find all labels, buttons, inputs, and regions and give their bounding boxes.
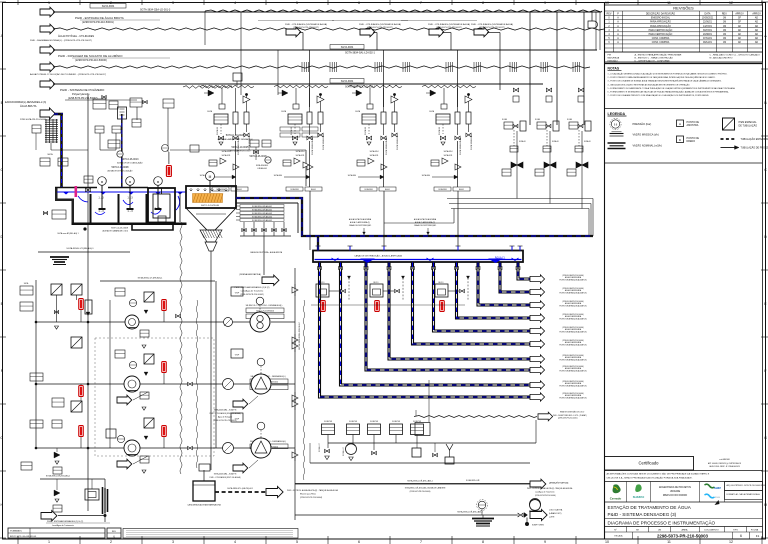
- row1 pump: [125, 315, 139, 329]
- svg-text:JM: JM: [723, 38, 726, 40]
- svg-text:5: 5: [296, 1, 298, 5]
- svg-text:SGTA: SGTA: [355, 110, 361, 113]
- svg-text:P&ID - ENTRADA DE ÁGUA BRUTA: P&ID - ENTRADA DE ÁGUA BRUTA: [75, 16, 124, 20]
- row1 motor: [256, 297, 264, 305]
- svg-text:12: 12: [729, 540, 733, 544]
- svg-text:P&ID - SISTEMA DE POLÍMERO: P&ID - SISTEMA DE POLÍMERO: [60, 88, 105, 92]
- svg-text:Água de Selagem: Água de Selagem: [218, 416, 233, 419]
- pipe utilidades zigzag 1: [40, 24, 55, 34]
- svg-text:SGTA-0811: SGTA-0811: [444, 154, 453, 157]
- collector right verticals: [592, 199, 594, 237]
- svg-text:meu: meu: [715, 495, 721, 499]
- svg-text:C: C: [0, 168, 3, 172]
- svg-text:5070-0-26-0008: 5070-0-26-0008: [111, 166, 129, 169]
- svg-text:SGTA-3834: SGTA-3834: [341, 46, 354, 49]
- tag box polimero: [330, 79, 364, 84]
- wavy boundary left of clarifier: [180, 222, 182, 474]
- svg-text:CONF. COMPRA: CONF. COMPRA: [652, 37, 670, 40]
- svg-text:14/07/21: 14/07/21: [703, 26, 713, 28]
- svg-text:B - EMITIDO C - PARA CONS: B - EMITIDO C - PARA CONSTRUÇÃO: [635, 57, 674, 60]
- valve component on drop 2: [118, 107, 127, 119]
- svg-text:FORMATO A1 - NÃO ALTERAR ESCAL: FORMATO A1 - NÃO ALTERAR ESCALA: [727, 493, 761, 496]
- stair pipe valves under channel: [318, 267, 320, 270]
- svg-text:ÁGUA CLARIFICADA (2): ÁGUA CLARIFICADA (2): [415, 221, 435, 224]
- svg-text:SGTA-3834-LUÉ-AB: SGTA-3834-LUÉ-AB: [311, 137, 314, 155]
- svg-text:JM: JM: [723, 30, 726, 32]
- svg-text:SGTA-LUT: SGTA-LUT: [342, 446, 345, 456]
- svg-text:7: 7: [420, 1, 422, 5]
- revision table footer: [605, 51, 763, 53]
- svg-text:DATA: DATA: [704, 13, 710, 16]
- svg-text:UN: UN: [658, 530, 662, 532]
- clarifier M mixer: [206, 172, 215, 181]
- svg-text:suze: suze: [714, 486, 721, 490]
- riser from connector 2: [373, 32, 377, 34]
- svg-text:UNIDADE: UNIDADE: [670, 490, 681, 493]
- bottom right items: [412, 448, 421, 457]
- svg-text:PARA CERTIFICAÇÃO: PARA CERTIFICAÇÃO: [649, 29, 673, 32]
- svg-text:JM: JM: [723, 22, 726, 24]
- svg-text:SGTA-08: SGTA-08: [364, 127, 367, 135]
- svg-text:SGTO-0-26-0008: SGTO-0-26-0008: [111, 228, 129, 230]
- row3 red valves: [80, 437, 82, 448]
- bottom instrument box 6 double: [415, 423, 430, 436]
- svg-text:NATUREZA: NATUREZA: [608, 57, 620, 60]
- box with inner square: [85, 489, 99, 500]
- manifold collector: [240, 235, 291, 237]
- row2 red valve: [163, 373, 165, 384]
- svg-text:SGTA 748: SGTA 748: [413, 420, 421, 423]
- vertical flow bars: [102, 487, 104, 514]
- clarified water pipe 1: [320, 263, 531, 398]
- row3 pump: [124, 440, 140, 456]
- left boxes near tank: [40, 158, 50, 166]
- svg-text:ART. 040445, REV5429 (r) CERTI: ART. 040445, REV5429 (r) CERTIFICADOS: [708, 462, 742, 465]
- svg-text:Nº: Nº: [614, 529, 617, 532]
- svg-text:PARA APROVAÇÃO: PARA APROVAÇÃO: [650, 25, 671, 28]
- svg-text:(2298-5073-UTIL-PR-50017): (2298-5073-UTIL-PR-50017): [479, 27, 505, 29]
- bottom row bus: [328, 442, 536, 444]
- svg-text:7 - PONTO DE DOSAGEM PREVISTO: 7 - PONTO DE DOSAGEM PREVISTO COM SINALI…: [608, 94, 710, 97]
- svg-text:BUCO: BUCO: [439, 282, 445, 284]
- lamella pack orange: [193, 194, 223, 203]
- svg-text:C - REALIZADO COMO CL - CIRCU: C - REALIZADO COMO CL - CIRCUITO LANÇADO: [710, 54, 761, 57]
- svg-text:EMISSÃO INICIAL: EMISSÃO INICIAL: [651, 17, 671, 20]
- svg-text:3: 3: [172, 540, 174, 544]
- left small bowtie: [43, 211, 45, 214]
- svg-text:FILTRO DE AREIA (xGUAxZbBTxV): FILTRO DE AREIA (xGUAxZbBTxV): [559, 385, 587, 388]
- svg-text:JM: JM: [723, 18, 726, 20]
- train hatch top 222: [200, 85, 254, 88]
- channel feed drop arrows: [317, 246, 319, 251]
- legend nominal flow symbol: [608, 142, 626, 144]
- riser from connector 3: [442, 32, 451, 34]
- lodo arrow: [530, 509, 547, 520]
- agua bruta drop 2: [121, 114, 123, 187]
- svg-text:6: 6: [358, 1, 360, 5]
- svg-text:Cerrado: Cerrado: [610, 497, 622, 501]
- svg-text:SGTA-3834-LUÉ: SGTA-3834-LUÉ: [396, 135, 399, 150]
- svg-text:(AGITADOR CÂMARA DE LODO): (AGITADOR CÂMARA DE LODO): [103, 230, 129, 233]
- logo strip: [605, 501, 763, 503]
- basin inner box: [158, 216, 166, 222]
- row2 bus: [35, 383, 251, 385]
- network main verticals: [35, 280, 37, 448]
- risers right pair: [595, 12, 597, 50]
- row3 instruments: [106, 429, 116, 438]
- svg-text:1→3: 1→3: [127, 197, 133, 200]
- svg-text:SGTA-3834-LUÉ-AB: SGTA-3834-LUÉ-AB: [385, 137, 388, 155]
- collector bus 223: [384, 222, 454, 224]
- svg-text:1: 1: [48, 1, 50, 5]
- svg-text:SGTA-3834-MFB-JGB-W-12: SGTA-3834-MFB-JGB-W-12: [298, 322, 301, 350]
- cad reference cells: [725, 482, 763, 491]
- svg-text:4: 4: [234, 540, 236, 544]
- off-page connector dosagem sulfato: [40, 45, 55, 55]
- train hatch top 370: [348, 85, 402, 88]
- svg-text:P&ID - UTILIDADES (SISTEMA DE: P&ID - UTILIDADES (SISTEMA DE ÁGUA): [285, 23, 327, 26]
- tag boxes above clarifier right: [280, 127, 300, 131]
- arrow filtros agua suja: [266, 486, 283, 497]
- revision table: [605, 5, 763, 62]
- bottom bowtie funnel: [325, 449, 327, 452]
- right compartment: [179, 192, 181, 222]
- svg-text:Lama/Água de Tratamento: Lama/Água de Tratamento: [241, 290, 263, 293]
- svg-text:CANAL DE DISTRIBUIÇÃO: CANAL DE DISTRIBUIÇÃO: [414, 224, 437, 227]
- svg-text:11: 11: [667, 540, 671, 544]
- red dosing valve on tank: [168, 152, 170, 164]
- svg-text:5070-0-26-0013: 5070-0-26-0013: [121, 158, 139, 161]
- svg-text:SGTA: SGTA: [502, 118, 508, 121]
- svg-text:AD: AD: [755, 17, 759, 20]
- bottom instrument boxes: [322, 424, 335, 435]
- logo cerrado: [613, 484, 621, 493]
- svg-text:1→3: 1→3: [127, 210, 133, 213]
- row2 big pump: [251, 374, 271, 394]
- svg-text:FILTRO DE AREIA (xGUAxZbBTxV): FILTRO DE AREIA (xGUAxZbBTxV): [559, 279, 587, 282]
- off-page arrow filtro 4: [530, 355, 545, 363]
- svg-text:Lava/Água de Tratamento: Lava/Água de Tratamento: [52, 524, 74, 527]
- manifold under labels: [243, 222, 245, 236]
- svg-text:BUCO: BUCO: [374, 282, 380, 284]
- svg-text:P&ID - UTILIDADES (SISTEMA DE: P&ID - UTILIDADES (SISTEMA DE ÁGUA): [359, 23, 401, 26]
- bottom y filter: [535, 420, 537, 443]
- svg-text:B004-1: B004-1: [237, 189, 242, 191]
- svg-text:B004-1: B004-1: [459, 189, 464, 191]
- svg-text:P&ID - FILTROS: ÁGUA DA UTA (2: P&ID - FILTROS: ÁGUA DA UTA (2) - TANQUE…: [287, 489, 338, 492]
- svg-text:8: 8: [482, 540, 484, 544]
- off-page arrow filtro 5: [530, 340, 545, 348]
- document number: [632, 532, 634, 539]
- svg-text:SGTA-3834-CBA-LD-001-3: SGTA-3834-CBA-LD-001-3: [140, 9, 171, 12]
- svg-text:M - ANULADO/MORTO: M - ANULADO/MORTO: [710, 57, 733, 60]
- caixa tank: [193, 481, 215, 501]
- svg-text:SGTA: SGTA: [535, 118, 541, 121]
- left small boxes: [20, 286, 33, 295]
- left collect line: [38, 251, 130, 253]
- clarified water pipe 3: [366, 263, 530, 371]
- tank bottom wall: [72, 223, 187, 226]
- svg-text:SGTA-3835-LUÉ-(R3-LAV)-1 ÁGU: SGTA-3835-LUÉ-(R3-LAV)-1 ÁGUA DE LAVAGEM: [405, 487, 446, 490]
- svg-text:SGTA 748: SGTA 748: [349, 420, 357, 423]
- svg-text:ÁGUA POTÁVEL P/ DILUIÇÃO DE PO: ÁGUA POTÁVEL P/ DILUIÇÃO DE POLÍMERO - (…: [30, 73, 106, 76]
- right instrument train 581: [567, 88, 591, 176]
- svg-text:ÁGUA CL: ÁGUA CL: [495, 257, 506, 260]
- svg-text:FILTRO DE AREIA (xGUAxZbBTxV): FILTRO DE AREIA (xGUAxZbBTxV): [559, 359, 587, 362]
- svg-text:DRENO: DRENO: [687, 140, 696, 143]
- svg-text:P&ID - UTILIDADES (SISTEMA DE: P&ID - UTILIDADES (SISTEMA DE ÁGUA): [471, 23, 513, 26]
- svg-text:SGTA-3834: SGTA-3834: [341, 80, 354, 83]
- bay pump clusters: [316, 284, 329, 297]
- row3 arrow 2: [233, 463, 248, 473]
- svg-text:ESTAÇÃO DE TRATAMENTO DE ÁGUA: ESTAÇÃO DE TRATAMENTO DE ÁGUA: [608, 504, 692, 510]
- svg-text:SGTA-3834-LUÉ-AB: SGTA-3834-LUÉ-AB: [459, 137, 462, 155]
- train hatch top 296: [274, 85, 328, 88]
- sump dot: [525, 522, 529, 526]
- second basin: [148, 188, 175, 223]
- svg-text:SGTA-3834-SAL-LD-002-1: SGTA-3834-SAL-LD-002-1: [345, 52, 375, 55]
- staircase bottom boundary: [295, 483, 532, 485]
- svg-text:P&ID - DIAGRAMA SISTEMA (L) -: P&ID - DIAGRAMA SISTEMA (L) - (2298-5073…: [30, 39, 92, 42]
- left cluster row4: [54, 490, 60, 496]
- svg-text:APROV: APROV: [735, 13, 744, 16]
- arrow lavagem: [530, 479, 546, 489]
- bottom-left arrow densadeg: [41, 511, 57, 521]
- bottom pump small: [346, 444, 357, 455]
- svg-text:P&ID - SISTEMA DENSADEG (1) E: P&ID - SISTEMA DENSADEG (1) E (2): [47, 520, 83, 523]
- vertical filter rect: [85, 300, 92, 314]
- dashed drain line to arrow: [414, 416, 537, 418]
- clarified water pipe 10: [518, 263, 530, 280]
- row3 big pump: [251, 438, 271, 458]
- clarifier cone: [186, 208, 236, 230]
- clarified water pipe 8: [478, 263, 530, 306]
- svg-text:P&ID - UTILIDADES (SISTEMA DE: P&ID - UTILIDADES (SISTEMA DE ÁGUA): [428, 23, 470, 26]
- svg-text:9: 9: [544, 540, 546, 544]
- svg-text:JM: JM: [723, 26, 726, 28]
- svg-text:SGTA 748: SGTA 748: [324, 420, 332, 423]
- dashed suppliers box: [95, 338, 214, 456]
- svg-text:ÁGUA SGTA PELA BOMBA: ÁGUA SGTA PELA BOMBA: [349, 218, 372, 221]
- svg-text:DIAGRAMA DE PROCESSO E INSTRUM: DIAGRAMA DE PROCESSO E INSTRUMENTAÇÃO: [608, 520, 716, 526]
- svg-text:6: 6: [740, 534, 742, 538]
- svg-text:10: 10: [605, 540, 609, 544]
- svg-text:Nº ANAMATIC: Nº ANAMATIC: [10, 530, 23, 533]
- svg-text:SGTA: SGTA: [207, 110, 213, 113]
- document number row: [605, 526, 763, 528]
- svg-text:TUBULAÇÃO ENTERRADA: TUBULAÇÃO ENTERRADA: [741, 138, 768, 141]
- svg-text:FILTRO DE AREIA (xGUAxZbBTxV): FILTRO DE AREIA (xGUAxZbBTxV): [559, 292, 587, 295]
- svg-text:CAIXA DESAGUADORA/DESARENADORA: CAIXA DESAGUADORA/DESARENADORA: [187, 504, 221, 507]
- row3 arrow 1: [117, 459, 132, 469]
- svg-text:2298-5073-PR-210-50003: 2298-5073-PR-210-50003: [657, 533, 709, 538]
- svg-text:SGTA-3834-ETL-(GE-PE)-001: SGTA-3834-ETL-(GE-PE)-001: [227, 487, 253, 490]
- blue flow arrows in tank: [78, 196, 88, 202]
- svg-text:P&ID - UTILIDADES (SIST. DE ÁG: P&ID - UTILIDADES (SIST. DE ÁGUA): [210, 476, 241, 479]
- extra cluster right of train0: [250, 140, 259, 147]
- svg-text:ARQ. ELETRÔNICO: 5073-PR-210-5: ARQ. ELETRÔNICO: 5073-PR-210-50003.DWG: [727, 484, 766, 487]
- instrument train 222: [200, 88, 250, 191]
- off-page arrow filtro 9: [530, 288, 545, 296]
- svg-text:B004-1: B004-1: [385, 189, 390, 191]
- svg-text:SGTA-3835-LUÉ-(R3-LAV)-1: SGTA-3835-LUÉ-(R3-LAV)-1: [46, 475, 70, 478]
- svg-text:5 - FORNECIMENTO DO FABRICANTE: 5 - FORNECIMENTO DO FABRICANTE: TODA A T…: [608, 87, 736, 90]
- off-page arrow filtro 1: [530, 393, 545, 401]
- svg-text:SGTA-xxxx AT-(SEL-AG) 1: SGTA-xxxx AT-(SEL-AG) 1: [57, 232, 78, 235]
- junction dot: [83, 227, 86, 230]
- svg-text:4 - VÁLVULAS DE BLOQUEIO RESTR: 4 - VÁLVULAS DE BLOQUEIO RESTRITAS ÀS IN…: [608, 83, 691, 86]
- pink bar: [75, 186, 78, 197]
- svg-text:TIPO: TIPO: [733, 530, 738, 532]
- inst circle dashed: [478, 501, 486, 509]
- svg-text:SGTA: SGTA: [47, 153, 53, 156]
- svg-text:CÂMARA LAMELA (SIST. DENSADEG): CÂMARA LAMELA (SIST. DENSADEG): [217, 138, 253, 141]
- row2 small circle: [223, 379, 234, 390]
- svg-text:5070-0-10-0028: 5070-0-10-0028: [226, 133, 245, 137]
- off-page arrow filtro 2: [530, 381, 545, 389]
- svg-text:G: G: [0, 436, 3, 440]
- svg-text:FILTRO DE AREIA (xGUAxZbBTxV): FILTRO DE AREIA (xGUAxZbBTxV): [559, 318, 587, 321]
- svg-text:AD: AD: [755, 29, 759, 32]
- row3 bus: [35, 447, 251, 449]
- svg-text:SGTA-3835-LUÉ: SGTA-3835-LUÉ: [466, 479, 480, 482]
- svg-text:SGTA: SGTA: [567, 118, 573, 121]
- svg-text:FILTRO DE AREIA (xGUAxZbBTxV): FILTRO DE AREIA (xGUAxZbBTxV): [559, 344, 587, 347]
- bay signal thin line: [311, 304, 465, 306]
- tank top rim left: [55, 187, 97, 189]
- misc right mid connectors: [516, 165, 518, 199]
- clarified water pipe 5: [413, 263, 531, 345]
- svg-text:ÁREA: ÁREA: [682, 529, 688, 532]
- svg-text:PARA APROVAÇÃO: PARA APROVAÇÃO: [650, 21, 671, 24]
- svg-text:SGTA-0811: SGTA-0811: [370, 154, 379, 157]
- left valve station: [87, 165, 89, 252]
- svg-text:SGTA-0814: SGTA-0814: [296, 150, 305, 153]
- clarifier bottom funnel: [205, 242, 217, 251]
- legend special piping item symbol: [723, 118, 735, 130]
- row1 marks: [144, 310, 148, 314]
- svg-text:(2298-5073-UTIL-PR-50017): (2298-5073-UTIL-PR-50017): [367, 27, 393, 29]
- svg-text:CANAL DE DISTRIBUIÇÃO: CANAL DE DISTRIBUIÇÃO: [349, 224, 372, 227]
- svg-text:(+ETE: (+ETE: [549, 517, 555, 519]
- svg-text:RIBAS DO RIO PARDO: RIBAS DO RIO PARDO: [663, 494, 688, 497]
- lodo pump: [530, 500, 541, 511]
- svg-text:(ARMAZÉM RÁPIDA): (ARMAZÉM RÁPIDA): [549, 482, 569, 485]
- svg-text:SGTA-0811: SGTA-0811: [296, 154, 305, 157]
- clarifier tank body: [186, 186, 236, 208]
- top dashed supply line: [205, 10, 602, 12]
- certificate box: [605, 457, 694, 471]
- svg-text:REV: REV: [607, 13, 612, 16]
- svg-text:5070-0-10-0025: 5070-0-10-0025: [231, 146, 249, 149]
- svg-text:PARA CERTIFICAÇÃO: PARA CERTIFICAÇÃO: [649, 33, 673, 36]
- svg-text:8: 8: [482, 1, 484, 5]
- svg-text:SGTA-08: SGTA-08: [438, 127, 441, 135]
- svg-text:FILTRO DE AREIA (xGUAxZbBTxV): FILTRO DE AREIA (xGUAxZbBTxV): [559, 397, 587, 400]
- svg-text:F1: F1: [756, 534, 760, 538]
- svg-text:H: H: [0, 503, 3, 507]
- svg-text:AMOSTRA: AMOSTRA: [687, 124, 699, 127]
- svg-text:AGITADOR DE COAGULAÇÃO: AGITADOR DE COAGULAÇÃO: [117, 162, 143, 165]
- box on polimero path: [233, 73, 242, 81]
- legend buried piping symbol: [721, 138, 737, 140]
- svg-text:REV.: REV.: [112, 531, 117, 533]
- svg-text:LODO DA ETA: LODO DA ETA: [549, 509, 563, 512]
- svg-text:TUBULAÇÃO DE PROCESSO: TUBULAÇÃO DE PROCESSO: [741, 147, 768, 150]
- svg-text:BUCO: BUCO: [320, 282, 326, 284]
- svg-text:FOLHA: FOLHA: [751, 529, 759, 532]
- svg-text:30/07/21: 30/07/21: [703, 30, 713, 32]
- row1 instruments: [129, 299, 136, 306]
- svg-text:FILTRO DE AREIA (xGUAxZbBTxV): FILTRO DE AREIA (xGUAxZbBTxV): [559, 370, 587, 373]
- row1 small circle: [224, 318, 233, 327]
- channel inlet drop: [317, 236, 319, 250]
- logo suzano blue cell: [705, 484, 715, 488]
- svg-text:LAUDO ENG. RESP.: Nº CREA 0405: LAUDO ENG. RESP.: Nº CREA 0405429: [709, 465, 740, 468]
- svg-text:AD: AD: [755, 33, 759, 36]
- network top bus: [100, 280, 215, 282]
- instrument train 444: [422, 88, 472, 191]
- risers right group: [529, 12, 531, 125]
- svg-text:H: H: [764, 503, 767, 507]
- svg-text:SGTA: SGTA: [281, 110, 287, 113]
- upper instrument cluster 1: [93, 99, 106, 109]
- svg-text:SGTA 748: SGTA 748: [370, 420, 378, 423]
- svg-text:SB RECOLO DE LODO - DENSADEG(L: SB RECOLO DE LODO - DENSADEG(L): [246, 304, 283, 307]
- flocculation tank inlet box: [55, 188, 74, 225]
- svg-text:DE TUBULAÇÃO: DE TUBULAÇÃO: [739, 125, 758, 128]
- left edge small box: [32, 125, 41, 133]
- clarified water pipe 6: [434, 263, 531, 332]
- svg-text:ÁGUA BRUTA: ÁGUA BRUTA: [20, 104, 37, 108]
- svg-text:CELULOSE S.A., SENDO PROIBIDA: CELULOSE S.A., SENDO PROIBIDA A SUA UTIL…: [607, 477, 693, 480]
- off-page arrow digestores: [538, 412, 553, 421]
- feed line verticals from top lines: [240, 12, 242, 95]
- svg-text:A - EMITIDO PARA APROVAÇÃO P: A - EMITIDO PARA APROVAÇÃO PRELIMINAR: [635, 54, 682, 57]
- svg-text:FILTRO DE AREIA (xGUAxZbBTxV): FILTRO DE AREIA (xGUAxZbBTxV): [559, 331, 587, 334]
- svg-text:JM: JM: [723, 42, 726, 44]
- labels right of clarifier: [240, 205, 284, 208]
- svg-text:SUMP? DREN: SUMP? DREN: [532, 525, 544, 527]
- svg-text:B004-1: B004-1: [311, 189, 316, 191]
- svg-text:BENTO/ ETRL-GE-4-ML-ER-001: BENTO/ ETRL-GE-4-ML-ER-001: [10, 536, 36, 538]
- row1 bus: [35, 321, 250, 323]
- logo suzano: [635, 484, 641, 492]
- svg-text:SGTA-3835-LUÉ-(R3-LAV)-1: SGTA-3835-LUÉ-(R3-LAV)-1: [407, 480, 433, 483]
- upper instrument cluster 3: [163, 99, 174, 108]
- svg-text:(DRENAGEM RÁPIDA): (DRENAGEM RÁPIDA): [239, 273, 261, 276]
- pipe utilidades zigzag 2: [40, 62, 55, 72]
- distribution channel tank: [313, 251, 523, 263]
- row2 motor: [257, 358, 265, 366]
- svg-text:SGTA-3834-LUÉ: SGTA-3834-LUÉ: [322, 135, 325, 150]
- svg-text:P&ID - UTILIDADES (SIST. DE ÁG: P&ID - UTILIDADES (SIST. DE ÁGUA): [210, 412, 241, 415]
- svg-text:SGTA-3834-LUÉ-AB-004: SGTA-3834-LUÉ-AB-004: [252, 215, 272, 218]
- svg-text:1: 1: [48, 540, 50, 544]
- tag box sulfato: [330, 45, 364, 50]
- bottom mid items: [373, 443, 375, 450]
- right instrument train 516: [502, 88, 526, 176]
- svg-text:AD: AD: [755, 21, 759, 24]
- svg-text:Efluente para Filtros: Efluente para Filtros: [300, 493, 316, 496]
- pipe from entrada: [53, 11, 601, 13]
- svg-text:CONF. COMPRA: CONF. COMPRA: [652, 41, 670, 44]
- svg-text:AS INFORMAÇÕES CONTIDAS NESTE: AS INFORMAÇÕES CONTIDAS NESTE DOCUMENTO …: [607, 473, 710, 476]
- svg-text:VSP: VSP: [235, 293, 240, 295]
- right instrument train 549: [535, 88, 559, 176]
- row1 big pump: [250, 312, 270, 332]
- upper instrument cluster 2: [130, 98, 142, 107]
